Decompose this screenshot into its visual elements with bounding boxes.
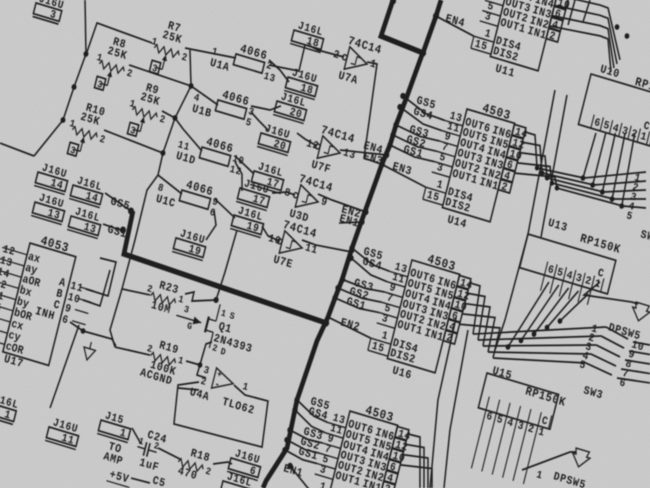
wire U1B out3 to J16L-20: [251, 98, 281, 115]
wire rail to U1B input: [188, 86, 220, 105]
wire C24 to R18: [157, 448, 181, 459]
bus tap dot GS2: [390, 131, 397, 139]
wire J15 to C24: [129, 428, 144, 444]
potentiometer R10 25K: [62, 98, 113, 164]
wire EN3 bus to U14: [380, 164, 428, 187]
wire U3D input from J16U-17: [272, 188, 295, 200]
wire GS4 to 4503 stub: [292, 410, 328, 433]
wire R23 out to Q1 source node: [184, 290, 217, 308]
thick bus top entry right: [423, 0, 441, 54]
wire U1B out5 to J16U-20: [248, 112, 271, 130]
wire GS4 to 4503 stub: [397, 107, 444, 131]
wire U13 to DPSW5: [584, 278, 640, 310]
wire Q1 source up to J16L-19: [216, 229, 237, 301]
capacitor C24 1uF: [132, 427, 168, 475]
wire GS2 to 4503 stub: [392, 135, 438, 153]
connector J16U pin 3 top-left corner: [33, 0, 66, 24]
analog switch U1D 4066: [174, 129, 248, 182]
wire INH to AGND junction: [69, 322, 84, 331]
connector J16L pin 19: [230, 204, 267, 238]
wire U1A out2 to J16U-18: [265, 60, 293, 82]
resistor pack U10 RP150K: [578, 61, 650, 149]
bus tap dot GS3: [393, 121, 400, 129]
wire right rail R7-R10 outputs: [158, 50, 200, 178]
wire R8 pin2 to rail: [128, 65, 191, 86]
analog ground arrow: [81, 347, 95, 362]
wire U1C out9 to J16L-19: [212, 199, 238, 218]
wire GS5 to 4503 stub: [294, 400, 331, 422]
wire into U7A input: [325, 51, 344, 57]
wire GS3 to 4503 stub: [342, 279, 384, 294]
wire U1A out13 to J16L-18: [269, 36, 305, 73]
connector J16U pin 13: [31, 191, 68, 225]
thick bus branch to left mini bus: [120, 211, 338, 323]
buffer IC U19 4503: [305, 392, 415, 488]
wire +5V to C5: [131, 477, 150, 483]
wire U7F output EN4 to bus: [340, 142, 387, 164]
opamp feedback loop wire: [169, 369, 275, 450]
buffer IC U14 4503: [418, 90, 532, 242]
analog switch U1B 4066: [190, 81, 258, 133]
bus tap dot GS2: [284, 436, 291, 444]
bus tap dot GS4: [397, 103, 404, 111]
connector J16L pin 6: [219, 470, 256, 488]
wire U7A input from J16L-18 region: [308, 45, 326, 52]
inverter U3D 74C14: [278, 170, 334, 230]
connector J16L pin 17: [250, 160, 287, 194]
connector J16L pin 18: [290, 19, 327, 53]
wire J16L-14 GS5 to mini bus: [103, 193, 134, 211]
wire GS3 to 4503 stub: [395, 125, 440, 142]
thick bus junction dots top: [389, 0, 396, 5]
resistor pack U15 RP150K: [464, 364, 570, 488]
wire R7 pin1 to rail: [87, 22, 153, 69]
wires U14 IN staircase: [517, 132, 544, 168]
connector J16U pin 20: [257, 122, 294, 156]
junction dots right top: [614, 24, 620, 31]
wire GS4 to 4503 stub: [348, 258, 390, 282]
wire U1D out12 to J16U-17: [229, 162, 248, 191]
bus tap dot GS4: [292, 406, 299, 414]
wire U1D out10 to J16L-17: [232, 156, 257, 174]
op-amp U4A TL062: [188, 362, 262, 418]
wire Q1 drain down to opamp input: [197, 340, 215, 378]
resistor R23 10M: [142, 276, 187, 320]
bus tap dot GS4: [348, 254, 355, 262]
mini bus dots: [127, 207, 134, 215]
long verticals left of U15: [415, 318, 472, 488]
potentiometer R7 25K: [144, 16, 195, 82]
bus tap dot GS1: [332, 294, 339, 302]
potentiometer R9 25K: [122, 78, 173, 144]
connector J16L pin 1 left edge: [0, 391, 20, 425]
wire EN1 bus to bottom 4503 DIS: [286, 466, 313, 488]
wire GS1 to 4503 stub: [389, 145, 435, 163]
wire U11 area down to U13: [490, 90, 563, 351]
analog switch U1A 4066: [208, 35, 282, 88]
wire R18 to J16U-6: [213, 458, 232, 469]
connector J16U pin 17: [236, 177, 273, 211]
wire R19 left: [115, 345, 150, 358]
EN4 junction dot: [432, 12, 439, 20]
wire R23 left down to R19: [106, 286, 150, 353]
inverter U7A 74C14: [327, 32, 383, 92]
wire R7 pin2 to U1A: [185, 43, 236, 63]
wire R10 pin2 to rail: [103, 130, 164, 153]
connector J16U pin 19: [172, 227, 209, 261]
buffer IC U16 4503: [363, 241, 477, 393]
potentiometer R8 25K: [89, 32, 140, 98]
thick bus top entry left: [380, 0, 433, 53]
connector J16L pin 14: [69, 174, 106, 208]
inverter U7F 74C14: [300, 121, 360, 183]
wire junction to ACGND R19: [82, 330, 117, 346]
connector J16U pin 11: [45, 416, 82, 450]
mux U17 4053: [0, 223, 104, 386]
wire U1C out6 to J16U-19: [206, 210, 219, 242]
wire GS3 to 4503 stub: [289, 430, 323, 444]
wires U11 IN pins to U10: [546, 0, 631, 60]
wires U13 pin drops onto SW3 rows: [508, 275, 549, 354]
wire GS1 to 4503 stub: [284, 450, 318, 464]
wire left rail: [34, 0, 98, 163]
connector J16L pin 20: [273, 90, 310, 124]
wire EN4 from bus to U11: [434, 16, 476, 36]
offpage arrow DPSW5 bottom: [570, 447, 591, 469]
offpage arrow DPSW5 mid: [630, 301, 650, 323]
resistor R19 100K: [139, 336, 188, 391]
wire GS5 to 4503 stub: [349, 248, 392, 271]
wire R23 node up to pot rail: [122, 173, 158, 291]
wires U19 IN pins staircase down: [396, 433, 432, 488]
wire top right vertical pair: [568, 0, 575, 25]
wire 1 to DPSW5 bottom: [522, 438, 576, 484]
wire GS2 to 4503 stub: [337, 288, 382, 304]
wire GS1 to 4503 stub: [334, 298, 379, 314]
resistor R18 470: [174, 444, 215, 487]
connector J16U pin 18: [284, 66, 321, 100]
wire parallel down to U13 top: [532, 95, 576, 237]
buffer IC U11 4503: [466, 0, 580, 92]
wire GS2 to 4503 stub: [286, 440, 321, 454]
EN3 dot on bus: [379, 161, 386, 169]
switch SW3 rows from U16: [473, 290, 606, 370]
wire 4053 sel B up: [83, 265, 110, 307]
wire U7E output: [302, 237, 352, 255]
wire U3D output EN2 EN1 to bus: [317, 194, 367, 212]
connector J16U pin 14: [34, 161, 71, 195]
wire EN1 to bus lower: [339, 216, 362, 230]
thick bus main vertical: [263, 38, 423, 488]
wire U7A output down to EN3: [344, 61, 405, 164]
wire R19 out to drain wire: [186, 361, 200, 365]
analog switch U1C 4066: [154, 171, 222, 223]
transistor Q1 2N4393 JFET: [170, 293, 261, 366]
bus tap dot GS1: [282, 446, 289, 454]
junction bus-branch: [322, 318, 330, 327]
junction dots right rail: [188, 82, 194, 89]
connector J16U pin 6: [227, 447, 264, 481]
bus tap dot GS3: [339, 276, 346, 284]
junction dots on left rail: [83, 50, 89, 57]
resistor pack U13 RP150K: [516, 212, 623, 310]
inverter U7E 74C14: [262, 216, 322, 278]
wires U16 IN pins staircase down: [458, 283, 484, 334]
bus tap dot GS2: [335, 284, 342, 292]
wire J16L-13 GS1 to mini bus: [103, 224, 123, 231]
connector J15 pin 1: [97, 409, 134, 443]
wire rail to U1C input: [155, 175, 184, 194]
wires U10 pins down to bundle: [583, 133, 596, 179]
wire opamp minus input: [178, 384, 199, 394]
wire bottom left diagonal: [50, 323, 79, 411]
wire 4053 sel A up: [86, 255, 117, 295]
bus tap dot GS5: [294, 396, 301, 404]
diagonal bundle to SW2: [537, 141, 646, 198]
Q1 source junction dot: [213, 296, 219, 303]
wire U7E input from J16L-19: [260, 226, 282, 241]
bus tap dot GS5: [349, 244, 356, 252]
bus tap dot GS1: [387, 141, 394, 149]
wire R9 pin2 to rail: [161, 111, 175, 118]
bus tap dot GS5: [400, 92, 407, 100]
wire EN2 bus to U16 DIS: [326, 317, 373, 338]
connector J16L pin 13: [67, 205, 104, 239]
bus tap dot GS3: [287, 426, 294, 434]
wire GS5 to 4503 stub: [400, 96, 447, 120]
wire U7F input from J16U-20: [295, 133, 318, 146]
wire rail to U1D input: [169, 118, 208, 151]
wire rail to left edge: [0, 143, 35, 156]
